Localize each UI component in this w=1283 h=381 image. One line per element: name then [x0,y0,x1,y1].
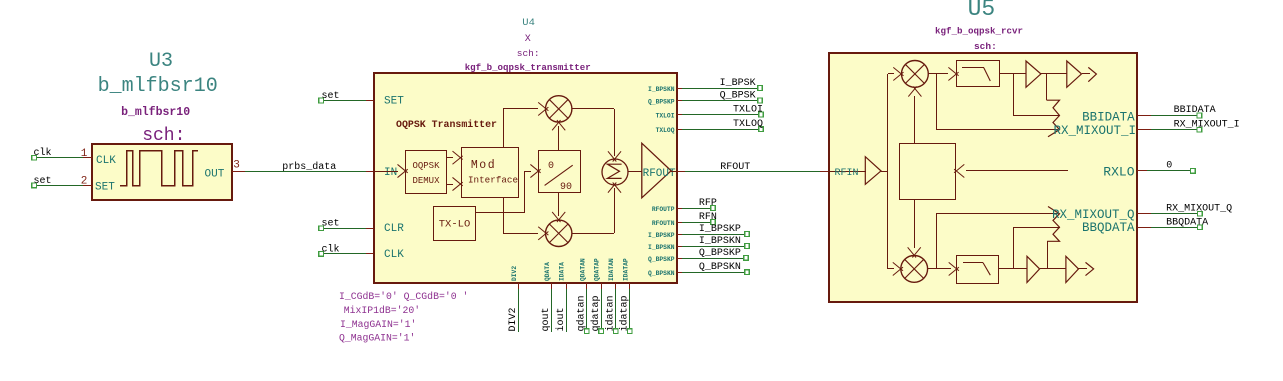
wire Q path mod-interface to bottom mixer [503,198,505,233]
0/90 phase splitter box [539,151,581,193]
svg-text:I_BPSKP: I_BPSKP [648,232,675,239]
wire qdatap [601,289,603,330]
terminator square BBQDATA [1198,225,1203,230]
wire DIV2 [518,289,520,332]
terminator square TXLOQ [759,127,764,132]
arrow into demux [398,164,408,172]
RXLO line into LO splitter [954,164,964,172]
wire set to U4 CLR [324,228,366,230]
svg-text:Q_MagGAIN='1': Q_MagGAIN='1' [339,333,415,344]
svg-text:OQPSK Transmitter: OQPSK Transmitter [396,119,497,131]
arrow down into bottom mixer [908,247,916,257]
svg-text:RFOUT: RFOUT [720,162,750,173]
wire 0/90 to bottom mixer LO port [558,192,560,216]
wire filter to amps bottom [999,268,1027,270]
terminator square clk [32,156,37,161]
terminator square RFP [711,206,716,211]
svg-text:iout: iout [555,307,567,331]
wire I_BPSK [682,88,758,90]
svg-text:Q_BPSKP: Q_BPSKP [699,248,741,259]
wire RX_MIXOUT_Q [1151,213,1197,215]
svg-text:Q_BPSKP: Q_BPSKP [648,99,675,106]
terminator square Q_BPSKN [745,270,750,275]
wire RFOUT to U5 [685,171,820,173]
U4 SET pin stub [366,100,374,102]
wire RXLO net 0 [1147,170,1190,172]
svg-text:0: 0 [1166,161,1172,172]
svg-text:SET: SET [384,96,404,108]
svg-text:RX_MIXOUT_I: RX_MIXOUT_I [1053,124,1136,138]
RX_MIXOUT_I tap wire [936,74,938,130]
wire I_BPSKN [682,246,745,248]
wire set [36,185,83,187]
PRBS generator U3 body [92,144,232,200]
wire Q_BPSK [682,100,758,102]
svg-text:CLR: CLR [384,223,404,235]
svg-text:SET: SET [95,182,115,194]
svg-text:sch:: sch: [974,41,997,52]
svg-text:U4: U4 [522,17,535,29]
svg-text:clk: clk [34,147,52,159]
svg-text:DIV2: DIV2 [508,307,519,331]
terminator square qdatap [599,329,604,334]
amp1 top [1026,61,1041,87]
wire Q_BPSKN [682,272,745,274]
zigzag top [1047,100,1060,137]
svg-text:qdatan: qdatan [576,295,588,331]
U5 pin BBQDATA stub [1137,227,1151,229]
svg-text:I_BPSKN: I_BPSKN [699,236,741,247]
terminator square RX_MIXOUT_Q [1198,211,1203,216]
output arrow bottom [1078,268,1087,270]
svg-text:I_CGdB='0' Q_CGdB='0 ': I_CGdB='0' Q_CGdB='0 ' [339,291,468,302]
U4 IN pin stub [366,171,374,173]
RFIN amplifier triangle [865,157,881,185]
wire bottom mixer to filter [928,268,951,270]
svg-text:BBQDATA: BBQDATA [1082,221,1135,235]
wire RFIN amp to splitter riser [881,171,888,173]
terminator square RX_MIXOUT_I [1197,127,1202,132]
wire TX-LO to 0/90 splitter [476,212,525,214]
svg-text:b_mlfbsr10: b_mlfbsr10 [121,106,190,119]
wire top mixer to filter [928,73,948,75]
U3 pin 3 stub [232,171,245,173]
wire TXLOQ [682,129,759,131]
svg-text:IDATAN: IDATAN [608,258,615,281]
wire BBIDATA [1151,115,1197,117]
wire RX_MIXOUT_I [1151,129,1197,131]
wire IN to demux [374,171,398,173]
svg-text:IDATA: IDATA [559,262,566,281]
svg-text:kgf_b_oqpsk_transmitter: kgf_b_oqpsk_transmitter [465,62,591,73]
wire TXLOI [682,114,759,116]
svg-text:set: set [322,219,340,230]
arrow up into top mixer [552,120,560,130]
wire clk to U4 CLK [324,253,366,255]
wire iout [566,289,568,332]
svg-text:QDATAP: QDATAP [594,258,601,281]
U4 CLK pin stub [366,253,374,255]
wire bottom mixer to summer [572,233,614,235]
arrow into bottom mixer [538,227,548,235]
OQPSK receiver U5 body [829,53,1137,302]
wire set to U4 SET [324,100,366,102]
wire idatap [629,289,631,330]
arrow into bottom filter [949,262,959,270]
output arrow top [1082,73,1090,75]
RX_MIXOUT_Q tap wire [936,214,938,269]
svg-text:set: set [34,176,52,187]
svg-text:CLK: CLK [96,155,116,167]
svg-text:RX_MIXOUT_Q: RX_MIXOUT_Q [1166,203,1232,214]
svg-text:X: X [525,34,531,45]
svg-text:I_BPSKP: I_BPSKP [699,224,741,235]
svg-text:RX_MIXOUT_I: RX_MIXOUT_I [1174,119,1240,130]
terminator square set lower [319,226,324,231]
Mod Interface box [462,148,519,198]
svg-text:set: set [322,91,340,102]
svg-text:BBIDATA: BBIDATA [1174,105,1216,116]
svg-text:0: 0 [548,161,554,172]
waveform glyph inside U3 [120,151,198,186]
svg-text:TX-LO: TX-LO [439,219,471,231]
wire RFP [682,208,711,210]
terminator square qdatan [585,329,590,334]
sigma glyph [607,164,621,178]
U5 pin RX_MIXOUT_Q stub [1137,213,1151,215]
tap riser v1 top (BBIDATA) [1013,74,1015,116]
wire top mixer to summer [572,108,614,110]
terminator square BBIDATA [1197,113,1202,118]
wire 0/90 to top mixer LO port [558,126,560,150]
svg-text:U3: U3 [149,50,173,73]
terminator square clk lower [319,252,324,257]
wire qdatan [586,289,588,330]
svg-text:IDATAP: IDATAP [622,258,629,281]
arrow into top mixer [893,67,903,75]
mixer top (I) [546,96,572,122]
U4 CLR pin stub [366,228,374,230]
svg-text:I_BPSKN: I_BPSKN [648,86,675,93]
amp2 bottom [1066,256,1079,282]
svg-text:idatan: idatan [605,295,617,331]
mixer bottom (Q) [546,220,572,246]
terminator square set top [319,98,324,103]
tap riser v2 top [1046,74,1048,100]
svg-text:Q_BPSKP: Q_BPSKP [648,256,675,263]
svg-text:I_MagGAIN='1': I_MagGAIN='1' [340,319,416,330]
wire LO square to top mixer [914,96,916,144]
svg-text:RFIN: RFIN [835,168,859,179]
svg-text:RX_MIXOUT_Q: RX_MIXOUT_Q [1052,208,1135,222]
amp2 top [1067,61,1082,87]
arrow down into bottom mixer [552,212,560,222]
svg-text:RXLO: RXLO [1103,165,1134,180]
arrow into top mixer [538,102,548,110]
wire Q_BPSKP [682,258,744,260]
wire amp1 to amp2 top [1041,73,1067,75]
wire demux Q out [446,184,453,186]
svg-text:1: 1 [81,148,88,160]
svg-text:RFOUT: RFOUT [643,168,676,180]
wire qout [551,289,553,332]
U3 pin 1 stub [83,157,92,159]
wire riser to top mixer [888,73,894,75]
terminator square RFN [711,220,716,225]
svg-text:BBIDATA: BBIDATA [1082,110,1135,124]
arrow into top filter [948,67,958,75]
svg-text:RFOUTP: RFOUTP [652,206,675,213]
arrow into 0/90 splitter [530,164,540,172]
svg-text:DEMUX: DEMUX [412,176,440,186]
amp1 bottom [1027,256,1040,282]
svg-text:90: 90 [560,182,572,193]
svg-text:Q_BPSKN: Q_BPSKN [648,270,675,277]
svg-text:MixIP1dB='20': MixIP1dB='20' [344,305,420,316]
wire BBQDATA [1151,227,1197,229]
svg-text:prbs_data: prbs_data [282,161,336,173]
summer circle [602,159,628,185]
tap riser v1 bottom (BBQDATA) [1013,227,1015,269]
svg-text:DIV2: DIV2 [511,266,518,281]
svg-text:TXLOI: TXLOI [733,105,763,116]
wire summer to output amp [628,171,642,173]
svg-text:OUT: OUT [205,169,225,181]
U5 RFIN pin stub [820,171,829,173]
zigzag bottom [1047,207,1059,242]
svg-text:RFN: RFN [699,212,717,223]
wire RFN [682,222,711,224]
arrow up into top mixer from LO [908,86,916,96]
arrow demux Q into mod interface [453,177,463,185]
U5 pin BBIDATA stub [1137,115,1151,117]
svg-text:I_BPSKN: I_BPSKN [648,244,675,251]
svg-text:OQPSK: OQPSK [412,161,440,171]
svg-text:Q_BPSK: Q_BPSK [720,91,756,102]
svg-text:Mod: Mod [471,159,496,172]
terminator square idatap [628,329,633,334]
terminator square I_BPSK [758,86,763,91]
TX-LO box [434,207,476,241]
terminator square net 0 [1191,169,1196,174]
U5 pin RXLO stub [1137,170,1147,172]
arrow demux I into mod interface [453,151,463,159]
arrow down into summer [608,151,616,161]
top low-pass filter box [957,61,1000,87]
wire amp to RFOUT pin [671,171,677,173]
U3 pin 2 stub [83,185,92,187]
terminator square TXLOI [759,112,764,117]
wire prbs_data [245,171,366,173]
terminator square set [32,183,37,188]
bottom low-pass filter box [957,256,999,284]
svg-text:TXLOI: TXLOI [656,113,675,120]
svg-text:Q_BPSKN: Q_BPSKN [699,262,741,273]
svg-text:BBQDATA: BBQDATA [1166,218,1208,229]
svg-text:QDATAN: QDATAN [579,258,586,281]
svg-text:clk: clk [322,243,340,255]
RFOUT amplifier triangle [642,143,671,198]
U4 pin RFOUT stub [677,171,685,173]
LO splitter square [900,144,956,200]
terminator square Q_BPSK [758,98,763,103]
svg-text:b_mlfbsr10: b_mlfbsr10 [98,75,218,98]
wire LO square to bottom mixer [914,199,916,248]
wire filter to amps top [1000,73,1026,75]
terminator square I_BPSKN [745,244,750,249]
terminator square idatan [613,329,618,334]
svg-text:Interface: Interface [468,174,518,185]
svg-text:3: 3 [233,160,240,172]
U5 mixer top [902,61,929,88]
svg-text:TXLOQ: TXLOQ [656,127,675,134]
OQPSK DEMUX box [406,151,447,194]
svg-text:I_BPSK: I_BPSK [720,78,756,89]
wire clk [36,157,83,159]
tap riser v2 bottom [1047,241,1049,269]
svg-text:U5: U5 [968,0,996,22]
svg-text:TXLOQ: TXLOQ [733,119,763,130]
U5 pin label RFIN [829,171,866,173]
wire I path mod-interface to top mixer [503,109,505,147]
svg-text:qout: qout [541,307,552,331]
wire idatan [615,289,617,330]
svg-text:RFP: RFP [699,198,717,209]
wire riser to bottom mixer [888,268,894,270]
svg-text:RFOUTN: RFOUTN [652,220,675,227]
OQPSK transmitter U4 body [374,73,677,283]
wire I_BPSKP [682,234,745,236]
wire demux I out [446,157,453,159]
svg-text:QDATA: QDATA [544,262,551,281]
arrow up into summer [608,183,616,193]
U5 pin RX_MIXOUT_I stub [1137,129,1151,131]
terminator square I_BPSKP [745,232,750,237]
arrow into bottom mixer [893,262,903,270]
svg-text:sch:: sch: [517,48,540,59]
svg-text:idatap: idatap [619,295,631,331]
terminator square Q_BPSKP [744,256,749,261]
U5 mixer bottom [901,256,928,283]
svg-text:CLK: CLK [384,249,404,261]
svg-text:kgf_b_oqpsk_rcvr: kgf_b_oqpsk_rcvr [935,25,1023,36]
svg-text:IN: IN [384,167,397,179]
wire amp1 to amp2 bottom [1040,268,1066,270]
svg-text:qdatap: qdatap [590,295,602,331]
